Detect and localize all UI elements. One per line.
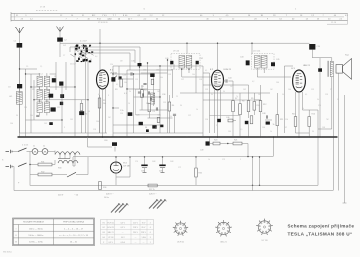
switch S2b	[18, 163, 27, 167]
gang trimmer blob 6	[84, 45, 86, 47]
gang trimmer blob 14	[89, 61, 91, 62]
wire R7 top	[232, 81, 234, 101]
wire rail x30 pow	[29, 152, 31, 175]
junction	[99, 43, 100, 44]
wire T1 top feed	[186, 43, 188, 53]
wire row y100b	[255, 99, 261, 101]
svg-text:0,1: 0,1	[305, 94, 307, 96]
wire R5 bottom	[148, 112, 150, 118]
junction	[181, 69, 182, 70]
svg-text:27 28: 27 28	[40, 7, 46, 9]
svg-text:C50: C50	[317, 46, 320, 48]
wire ballast tap	[59, 155, 61, 159]
capacitor C31	[143, 83, 146, 84]
svg-text:R31: R31	[41, 161, 44, 163]
svg-text:50M: 50M	[152, 161, 156, 163]
wire to T3 top	[312, 57, 332, 59]
bus junction	[186, 136, 188, 138]
pinout diagram UY1N	[256, 219, 273, 235]
wire row y74 mid	[113, 73, 154, 75]
junction	[298, 136, 300, 138]
wire V3 pin h	[298, 97, 300, 137]
coil L1	[37, 76, 42, 87]
ballast taps	[58, 158, 70, 160]
junction	[223, 80, 224, 81]
wire C26 down	[174, 116, 176, 133]
wire T3 top stub	[331, 58, 333, 62]
T1 trimmer C40	[170, 61, 173, 65]
dial scale left edge	[10, 12, 12, 21]
wire rail x25	[25, 69, 27, 137]
wire L7 top lead	[46, 99, 48, 102]
svg-text:L45: L45	[9, 96, 12, 98]
capacitor C49 blob	[206, 141, 210, 145]
svg-text:1,5k: 1,5k	[120, 110, 124, 112]
wire feed 3 drop	[129, 53, 131, 70]
capacitor C19	[156, 107, 157, 110]
capacitor C51 blob	[318, 68, 322, 72]
wire row y89 mid	[127, 88, 148, 90]
wire speaker frame down	[338, 73, 340, 190]
svg-text:2 — 4 — 6 — 16 — 17: 2 — 4 — 6 — 16 — 17	[64, 228, 83, 230]
pinout diagram UBL21	[215, 220, 232, 236]
wire rail x31	[30, 74, 32, 133]
svg-text:4: 4	[122, 167, 123, 169]
resistor R9	[247, 101, 250, 112]
wire rail x153.5	[153, 74, 155, 106]
IF transformer T2 box	[252, 54, 275, 70]
wire row y88 left	[31, 86, 40, 88]
svg-text:C18: C18	[93, 129, 96, 131]
wire row y93 v2	[180, 92, 270, 94]
svg-text:C19: C19	[135, 79, 138, 81]
junction	[186, 43, 187, 44]
wire L7 bottom lead	[46, 113, 48, 116]
T2 secondary coil L14	[261, 56, 267, 69]
capacitor C47 blob	[245, 121, 249, 124]
svg-text:UCH 21: UCH 21	[224, 69, 232, 71]
T2 trimmer C47b	[271, 62, 275, 66]
svg-text:C45: C45	[276, 59, 279, 61]
junction	[259, 185, 260, 186]
wire R8 top	[239, 93, 241, 104]
capacitor C46 blob	[217, 119, 221, 122]
svg-text:30k: 30k	[160, 77, 163, 79]
voltage plug bar	[119, 204, 128, 213]
gang trimmer blob 5	[84, 59, 86, 61]
svg-text:R7: R7	[235, 98, 237, 100]
svg-text:R12: R12	[263, 104, 266, 106]
wire rail x167.5	[167, 60, 169, 133]
svg-text:0,1: 0,1	[124, 93, 127, 95]
bus junction	[117, 136, 119, 138]
svg-text:R35: R35	[199, 173, 202, 175]
svg-text:C35: C35	[163, 102, 166, 104]
wire row y100 v2	[203, 99, 233, 101]
svg-text:220 V ~: 220 V ~	[106, 193, 114, 195]
svg-text:7k: 7k	[236, 96, 238, 98]
trimmer C12	[51, 107, 56, 111]
wire R2b bottom	[99, 108, 101, 133]
svg-text:C68: C68	[322, 127, 325, 129]
stub y190a	[252, 186, 254, 191]
voltage plug bar	[111, 204, 120, 213]
resistor R21	[233, 142, 242, 145]
wire mains lower	[13, 166, 15, 168]
T2 trimmer C45	[246, 60, 250, 65]
voltage plug cap	[126, 203, 128, 205]
svg-text:R4: R4	[85, 114, 87, 116]
T2 primary coil L13	[255, 56, 261, 69]
electrolytic capacitor 50M	[141, 165, 147, 167]
bus junction	[266, 136, 268, 138]
gang trimmer blob 15	[89, 60, 91, 62]
wire row y79 mid	[119, 78, 134, 80]
wire V2 top cap	[217, 43, 219, 70]
wire row y74 left	[26, 73, 40, 75]
wire rail x172.5	[172, 69, 174, 98]
capacitor C30 blob	[138, 63, 142, 66]
capacitor C16 blob	[111, 77, 115, 81]
svg-text:UBL 21: UBL 21	[220, 242, 227, 244]
svg-text:E1: E1	[103, 222, 105, 224]
svg-text:R11: R11	[280, 119, 283, 121]
wire R4 top	[141, 85, 143, 90]
capacitor C26	[173, 114, 176, 115]
vacuum tube V2 UCH21	[212, 70, 224, 90]
resistor R32	[38, 173, 52, 176]
wire row y97 mid	[134, 96, 161, 98]
coil L4	[44, 76, 49, 87]
wire row y103 right	[50, 99, 88, 101]
stub2	[87, 157, 89, 162]
svg-text:PRIPOJOVACI DESKA: PRIPOJOVACI DESKA	[63, 220, 84, 223]
dial scale tick	[13, 13, 15, 20]
gang trimmer blob 20	[86, 50, 88, 52]
wire ballast in	[54, 151, 56, 155]
svg-text:C52: C52	[311, 89, 314, 91]
gang trimmer blob 10	[89, 46, 90, 47]
wire L3 bottom lead	[39, 113, 41, 116]
gang trimmer blob 22	[83, 45, 84, 47]
wire ecap 144.5 top	[144, 157, 146, 165]
wire row y73 osc	[141, 72, 168, 74]
gang trimmer blob 23	[83, 47, 84, 49]
gang trimmer blob 11	[91, 51, 93, 52]
svg-text:TESLA „TALISMAN 308 U“: TESLA „TALISMAN 308 U“	[288, 231, 353, 236]
junction	[252, 185, 253, 186]
wire R12 top	[260, 85, 262, 101]
svg-text:0,1: 0,1	[205, 70, 207, 72]
svg-text:25: 25	[176, 96, 178, 98]
capacitor C48	[266, 115, 267, 118]
svg-text:R16: R16	[312, 114, 315, 116]
wire grid to tube V1	[99, 43, 101, 70]
svg-text:R9: R9	[251, 98, 253, 100]
gang trimmer blob 26	[82, 55, 85, 57]
svg-text:C44: C44	[228, 78, 231, 80]
junction	[111, 79, 112, 80]
svg-text:—: —	[143, 242, 145, 244]
gang link wire	[70, 54, 74, 57]
svg-text:ROZSAHY PRIJIMACE: ROZSAHY PRIJIMACE	[23, 220, 45, 223]
wire row y110 ext	[303, 109, 319, 111]
svg-text:3: 3	[64, 127, 65, 129]
svg-text:3: 3	[150, 237, 151, 239]
wire R15 bottom	[295, 126, 297, 133]
junction	[259, 156, 260, 157]
wire R9 top	[248, 85, 250, 101]
wire T2 top feed	[251, 43, 253, 53]
svg-text:C54: C54	[285, 119, 288, 121]
coil L5	[44, 89, 49, 100]
wire row y66 mid	[113, 65, 203, 67]
capacitor C24 blob	[146, 129, 149, 132]
terminal tick	[343, 202, 347, 204]
ballast resistor loops	[55, 152, 80, 155]
svg-text:1: 1	[150, 242, 151, 244]
svg-text:4 x 507: 4 x 507	[80, 41, 87, 43]
antenna coupling capacitor C1	[17, 43, 23, 48]
svg-text:510 kc — 1600 kc: 510 kc — 1600 kc	[28, 235, 43, 237]
svg-text:6: 6	[98, 94, 99, 96]
wire row y115	[210, 114, 241, 116]
svg-text:50k: 50k	[124, 82, 127, 84]
junction	[129, 156, 130, 157]
wire ballast to R	[73, 165, 75, 167]
svg-text:10k: 10k	[192, 74, 195, 76]
wire C51 up	[319, 58, 321, 69]
voltage plug cap	[118, 203, 120, 205]
wire antenna lead to bus	[19, 104, 21, 137]
wire R32 left	[30, 174, 38, 176]
wire T2 sec bottom	[263, 68, 265, 73]
wire L3 top lead	[39, 99, 41, 102]
wire row y120c	[265, 119, 272, 121]
wire rail x34	[33, 80, 35, 120]
T1 primary coil L9	[179, 56, 185, 69]
svg-text:5k: 5k	[170, 116, 172, 118]
bus junction	[248, 136, 250, 138]
svg-text:a — b — c, 5 — 10 — 12, 17 + 1: a — b — c, 5 — 10 — 12, 17 + 18	[59, 235, 88, 237]
junction	[227, 143, 228, 144]
gang trimmer blob 19	[89, 45, 91, 46]
wire R35 top	[195, 157, 197, 168]
wire rail x284	[283, 66, 285, 133]
svg-text:C42: C42	[200, 58, 203, 60]
bus junction	[239, 136, 241, 138]
wire T3 pri bottom	[331, 77, 333, 129]
wire R14 bottom	[253, 110, 255, 115]
svg-text:C46: C46	[276, 82, 279, 84]
svg-text:Repr: Repr	[345, 54, 349, 57]
capacitor C44	[226, 79, 227, 82]
resistor R31	[38, 163, 52, 166]
svg-text:ECH 21: ECH 21	[108, 222, 114, 224]
gang trimmer blob 17	[76, 45, 78, 47]
trimmer C9	[59, 82, 63, 86]
bus junction	[50, 136, 52, 138]
wire R21 right	[242, 143, 248, 145]
wire V2 pin	[217, 90, 219, 95]
capacitor C27	[142, 93, 143, 96]
wire R1 bottom	[81, 115, 83, 133]
junction	[102, 136, 104, 138]
rectifier tube V4 UY1N	[110, 162, 121, 173]
svg-text:0,5: 0,5	[240, 129, 242, 131]
svg-text:R2: R2	[103, 100, 105, 102]
gang link wire	[78, 54, 82, 57]
svg-text:C62: C62	[44, 123, 47, 125]
wire C49 top	[209, 137, 211, 141]
wire V4 cathode down	[115, 173, 117, 185]
resistor R11	[276, 115, 279, 126]
wire AVC rail	[60, 42, 310, 44]
wire x88 heater	[87, 162, 89, 175]
junction	[159, 65, 160, 66]
svg-text:C39: C39	[205, 89, 208, 91]
svg-text:C33: C33	[168, 74, 171, 76]
wire R16 top	[308, 110, 310, 117]
svg-text:5,8 Mc — 15 Mc: 5,8 Mc — 15 Mc	[29, 242, 43, 244]
wire V1 pin h	[102, 95, 104, 137]
svg-text:C64: C64	[10, 123, 13, 125]
capacitor C50 blob	[309, 44, 315, 50]
mains terminal upper	[6, 150, 13, 153]
svg-text:C73: C73	[222, 159, 225, 161]
wire bus to lamps	[87, 137, 89, 147]
svg-text:0,2: 0,2	[252, 81, 254, 83]
resistor R13b	[250, 116, 253, 124]
resistor block R13	[266, 122, 270, 125]
T1 secondary coil L10	[186, 56, 192, 69]
wire V1 top cap	[100, 69, 105, 71]
svg-text:UBL 21: UBL 21	[303, 65, 311, 67]
wire mains upper	[13, 151, 19, 153]
wire ecap 162.5 top	[162, 157, 164, 165]
svg-text:E4: E4	[103, 237, 105, 239]
wire T3 sec bottom	[332, 77, 334, 191]
bus junction	[126, 136, 128, 138]
wire rail x203	[202, 66, 204, 137]
dial scale middle rail	[11, 16, 344, 18]
wire antenna A2 lead	[59, 32, 61, 38]
resistor R37	[148, 184, 157, 187]
capacitor C21 blob	[152, 125, 156, 128]
capacitor C17	[131, 72, 132, 75]
wire L5 bottom lead	[46, 100, 48, 103]
gang trimmer blob 13	[82, 59, 84, 61]
junction	[61, 119, 62, 120]
wire row y133 v3	[296, 132, 310, 134]
trimmer C12b	[60, 102, 63, 105]
voltage plug cap	[156, 199, 158, 201]
resistor R1	[80, 104, 83, 111]
gang trimmer blob 1	[74, 53, 76, 55]
wire rail x88	[87, 62, 89, 137]
antenna A1	[15, 28, 24, 34]
svg-text:4,4: 4,4	[95, 56, 97, 58]
wire lamp1-lamp2	[38, 151, 42, 153]
wire rail x62	[61, 85, 63, 133]
svg-text:C60: C60	[104, 140, 107, 142]
svg-text:26 — 31: 26 — 31	[70, 242, 77, 244]
wire rail x252 drop	[252, 157, 254, 185]
svg-text:C70: C70	[135, 161, 138, 163]
svg-text:Z1: Z1	[33, 146, 35, 148]
svg-text:L9 L10: L9 L10	[173, 51, 180, 53]
trimmer C11	[60, 94, 64, 98]
gang trimmer blob 4	[88, 52, 90, 53]
output transformer T3 core 2	[327, 61, 329, 77]
svg-text:20k: 20k	[103, 103, 106, 105]
capacitor C25 blob	[160, 125, 163, 128]
svg-text:C32: C32	[143, 70, 146, 72]
gang link wire	[81, 45, 85, 48]
svg-text:1k: 1k	[208, 159, 210, 161]
wire row y70 mid	[127, 69, 173, 71]
svg-text:1,1: 1,1	[40, 66, 42, 68]
wire row y74 right	[50, 73, 56, 75]
svg-text:E2: E2	[103, 227, 105, 229]
gang trimmer blob 7	[76, 45, 78, 47]
wire T1 right down	[195, 64, 197, 93]
svg-text:215 V: 215 V	[133, 222, 138, 224]
capacitor C60 blob	[112, 142, 117, 146]
svg-text:30: 30	[16, 115, 18, 117]
voltage plug cap	[122, 203, 124, 205]
gang trimmer blob 12	[81, 51, 83, 53]
dial lamp Z2	[42, 149, 48, 155]
switch S3	[67, 172, 76, 177]
wire rail x119	[118, 66, 120, 79]
wire R8 bottom	[239, 115, 241, 137]
bus junction	[320, 136, 322, 138]
table A dividers	[13, 219, 93, 245]
wire x130 pow	[129, 157, 131, 177]
wire C49 to R20	[210, 143, 213, 145]
wire right rail x344	[344, 95, 346, 203]
capacitor C13 blob	[79, 111, 84, 115]
svg-text:C37: C37	[181, 79, 184, 81]
bus junction	[277, 136, 279, 138]
wire antenna A2 down2	[59, 43, 61, 57]
bus junction	[217, 136, 219, 138]
junction	[252, 156, 253, 157]
junction	[273, 136, 275, 138]
table B frame	[101, 220, 154, 245]
coil L7	[44, 102, 49, 113]
wire row y66 v3	[284, 65, 293, 67]
svg-text:C57: C57	[188, 115, 191, 117]
junction	[167, 59, 168, 60]
capacitor C14c blob	[49, 122, 53, 125]
wire band drop x100	[99, 29, 101, 43]
switch S2a	[18, 148, 27, 152]
IF transformer T1 box	[171, 54, 200, 70]
wire row y147	[88, 146, 113, 148]
junction	[139, 66, 140, 67]
svg-text:UY 1N: UY 1N	[124, 166, 130, 168]
wire C47 bottom	[248, 124, 250, 137]
wire V2 pin g2	[220, 95, 222, 122]
ground sym	[143, 172, 147, 174]
coil L2	[37, 89, 42, 100]
svg-text:30: 30	[223, 91, 225, 93]
svg-text:15 16: 15 16	[331, 22, 337, 24]
capacitor C29 blob	[150, 73, 154, 77]
wire B+ rail y157	[73, 156, 274, 158]
